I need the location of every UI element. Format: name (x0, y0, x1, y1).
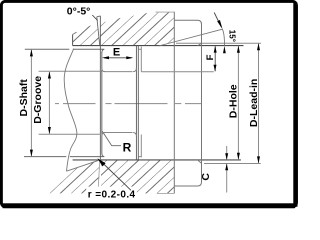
hub outer dia line near right face (156, 11, 175, 13)
svg-text:C: C (200, 173, 212, 181)
D-Hole bottom arrow (237, 153, 240, 160)
groove wall white slot lower (99, 160, 101, 189)
D-Hole top arrow (237, 46, 240, 53)
outer black frame (1, 1, 296, 206)
D-Shaft bottom arrow (30, 150, 33, 157)
svg-text:15°: 15° (228, 30, 237, 42)
dimension F line (214, 46, 216, 71)
R leader line (102, 131, 121, 146)
svg-text:D-Shaft: D-Shaft (18, 79, 30, 117)
F top arrow (214, 46, 217, 53)
svg-text:r =0.2-0.4: r =0.2-0.4 (88, 189, 136, 200)
shaft break line (64, 49, 77, 172)
hub left face top chamfer tick (73, 32, 77, 34)
groove left wall below surface with fillet bottom (102, 133, 105, 136)
groove right wall inner line (137, 46, 139, 160)
dimension D-Groove line (48, 72, 50, 134)
svg-text:R: R (123, 141, 132, 155)
groove left wall draft line lower (98, 160, 100, 189)
right border bar (293, 3, 297, 207)
groove floor bottom line (39, 133, 101, 135)
lead-in chamfer tick bottom (198, 160, 202, 164)
svg-text:E: E (113, 46, 120, 58)
lead-in bottom extension line (204, 163, 261, 165)
svg-text:F: F (205, 54, 216, 60)
hub upper section hatch band (73, 12, 174, 46)
dimension C line upper part (226, 146, 228, 160)
lead-in top extension line (176, 42, 261, 44)
svg-text:D-Lead-in: D-Lead-in (248, 79, 260, 127)
hub left face (72, 35, 74, 46)
groove left wall inner line (101, 52, 103, 154)
lead-in chamfer tick top (198, 43, 202, 46)
hub lower section hatch band (45, 160, 175, 194)
D-Lead-in top arrow (257, 43, 260, 50)
groove floor reference line to F dimension (141, 71, 214, 73)
groove right wall fillet top (133, 68, 136, 72)
D-Lead-in bottom arrow (257, 156, 260, 163)
F bottom arrow (214, 65, 217, 72)
groove left wall bottom tick (98, 188, 100, 191)
lead-in chamfer white sliver (159, 42, 175, 46)
dimension D-Shaft line (30, 50, 32, 156)
D-Groove top arrow (48, 72, 51, 79)
shaft end face lower stub (140, 135, 142, 158)
0-5 degree leader line (92, 15, 97, 21)
C bottom arrow (225, 164, 228, 171)
r leader line (100, 161, 131, 191)
groove wall white slot upper (97, 16, 101, 46)
15 degree arc (222, 29, 224, 46)
white halo behind r label (86, 187, 137, 199)
groove floor top line (39, 70, 102, 72)
15 degree chamfer line (159, 29, 223, 46)
dimension C line lower part (226, 164, 228, 193)
hub outer dia line bottom near right face (157, 192, 174, 194)
E left arrow (102, 56, 109, 59)
15 degree arc end arrow (223, 46, 226, 53)
groove left wall top tick (97, 15, 101, 18)
hub hole top line + right extension (73, 45, 244, 47)
groove left wall main vertical (99, 16, 101, 159)
right boss rounded rectangle (174, 20, 201, 186)
r leader arrowhead (97, 158, 105, 166)
lower band slope line (67, 160, 100, 171)
hub hole bottom line + right extension (73, 159, 241, 161)
shaft bottom surface line with D-Shaft extension (24, 154, 104, 157)
svg-text:D-Hole: D-Hole (227, 84, 239, 118)
svg-text:D-Groove: D-Groove (32, 76, 44, 124)
svg-text:0°-5°: 0°-5° (67, 5, 91, 17)
groove right wall outer line (135, 46, 137, 160)
C top arrow (225, 153, 228, 160)
D-Groove bottom arrow (48, 127, 51, 134)
groove right wall fillet bottom (133, 133, 136, 137)
groove left wall draft line upper (97, 17, 100, 45)
dimension E line (104, 57, 132, 59)
dimension D-Hole line (237, 46, 239, 160)
shaft top surface line with D-Shaft extension (25, 49, 105, 52)
bottom thick border bar (3, 203, 296, 208)
15 degree leader line (214, 13, 221, 27)
groove left wall below surface with fillet top (102, 68, 105, 71)
hub right face vertical (173, 12, 175, 194)
D-Shaft top arrow (30, 49, 33, 56)
dimension D-Lead-in line (258, 43, 260, 163)
shaft end face upper stub (140, 47, 142, 72)
centerline axis (55, 103, 202, 105)
E right arrow (126, 56, 133, 59)
15 degree leader arrowhead (217, 20, 222, 29)
